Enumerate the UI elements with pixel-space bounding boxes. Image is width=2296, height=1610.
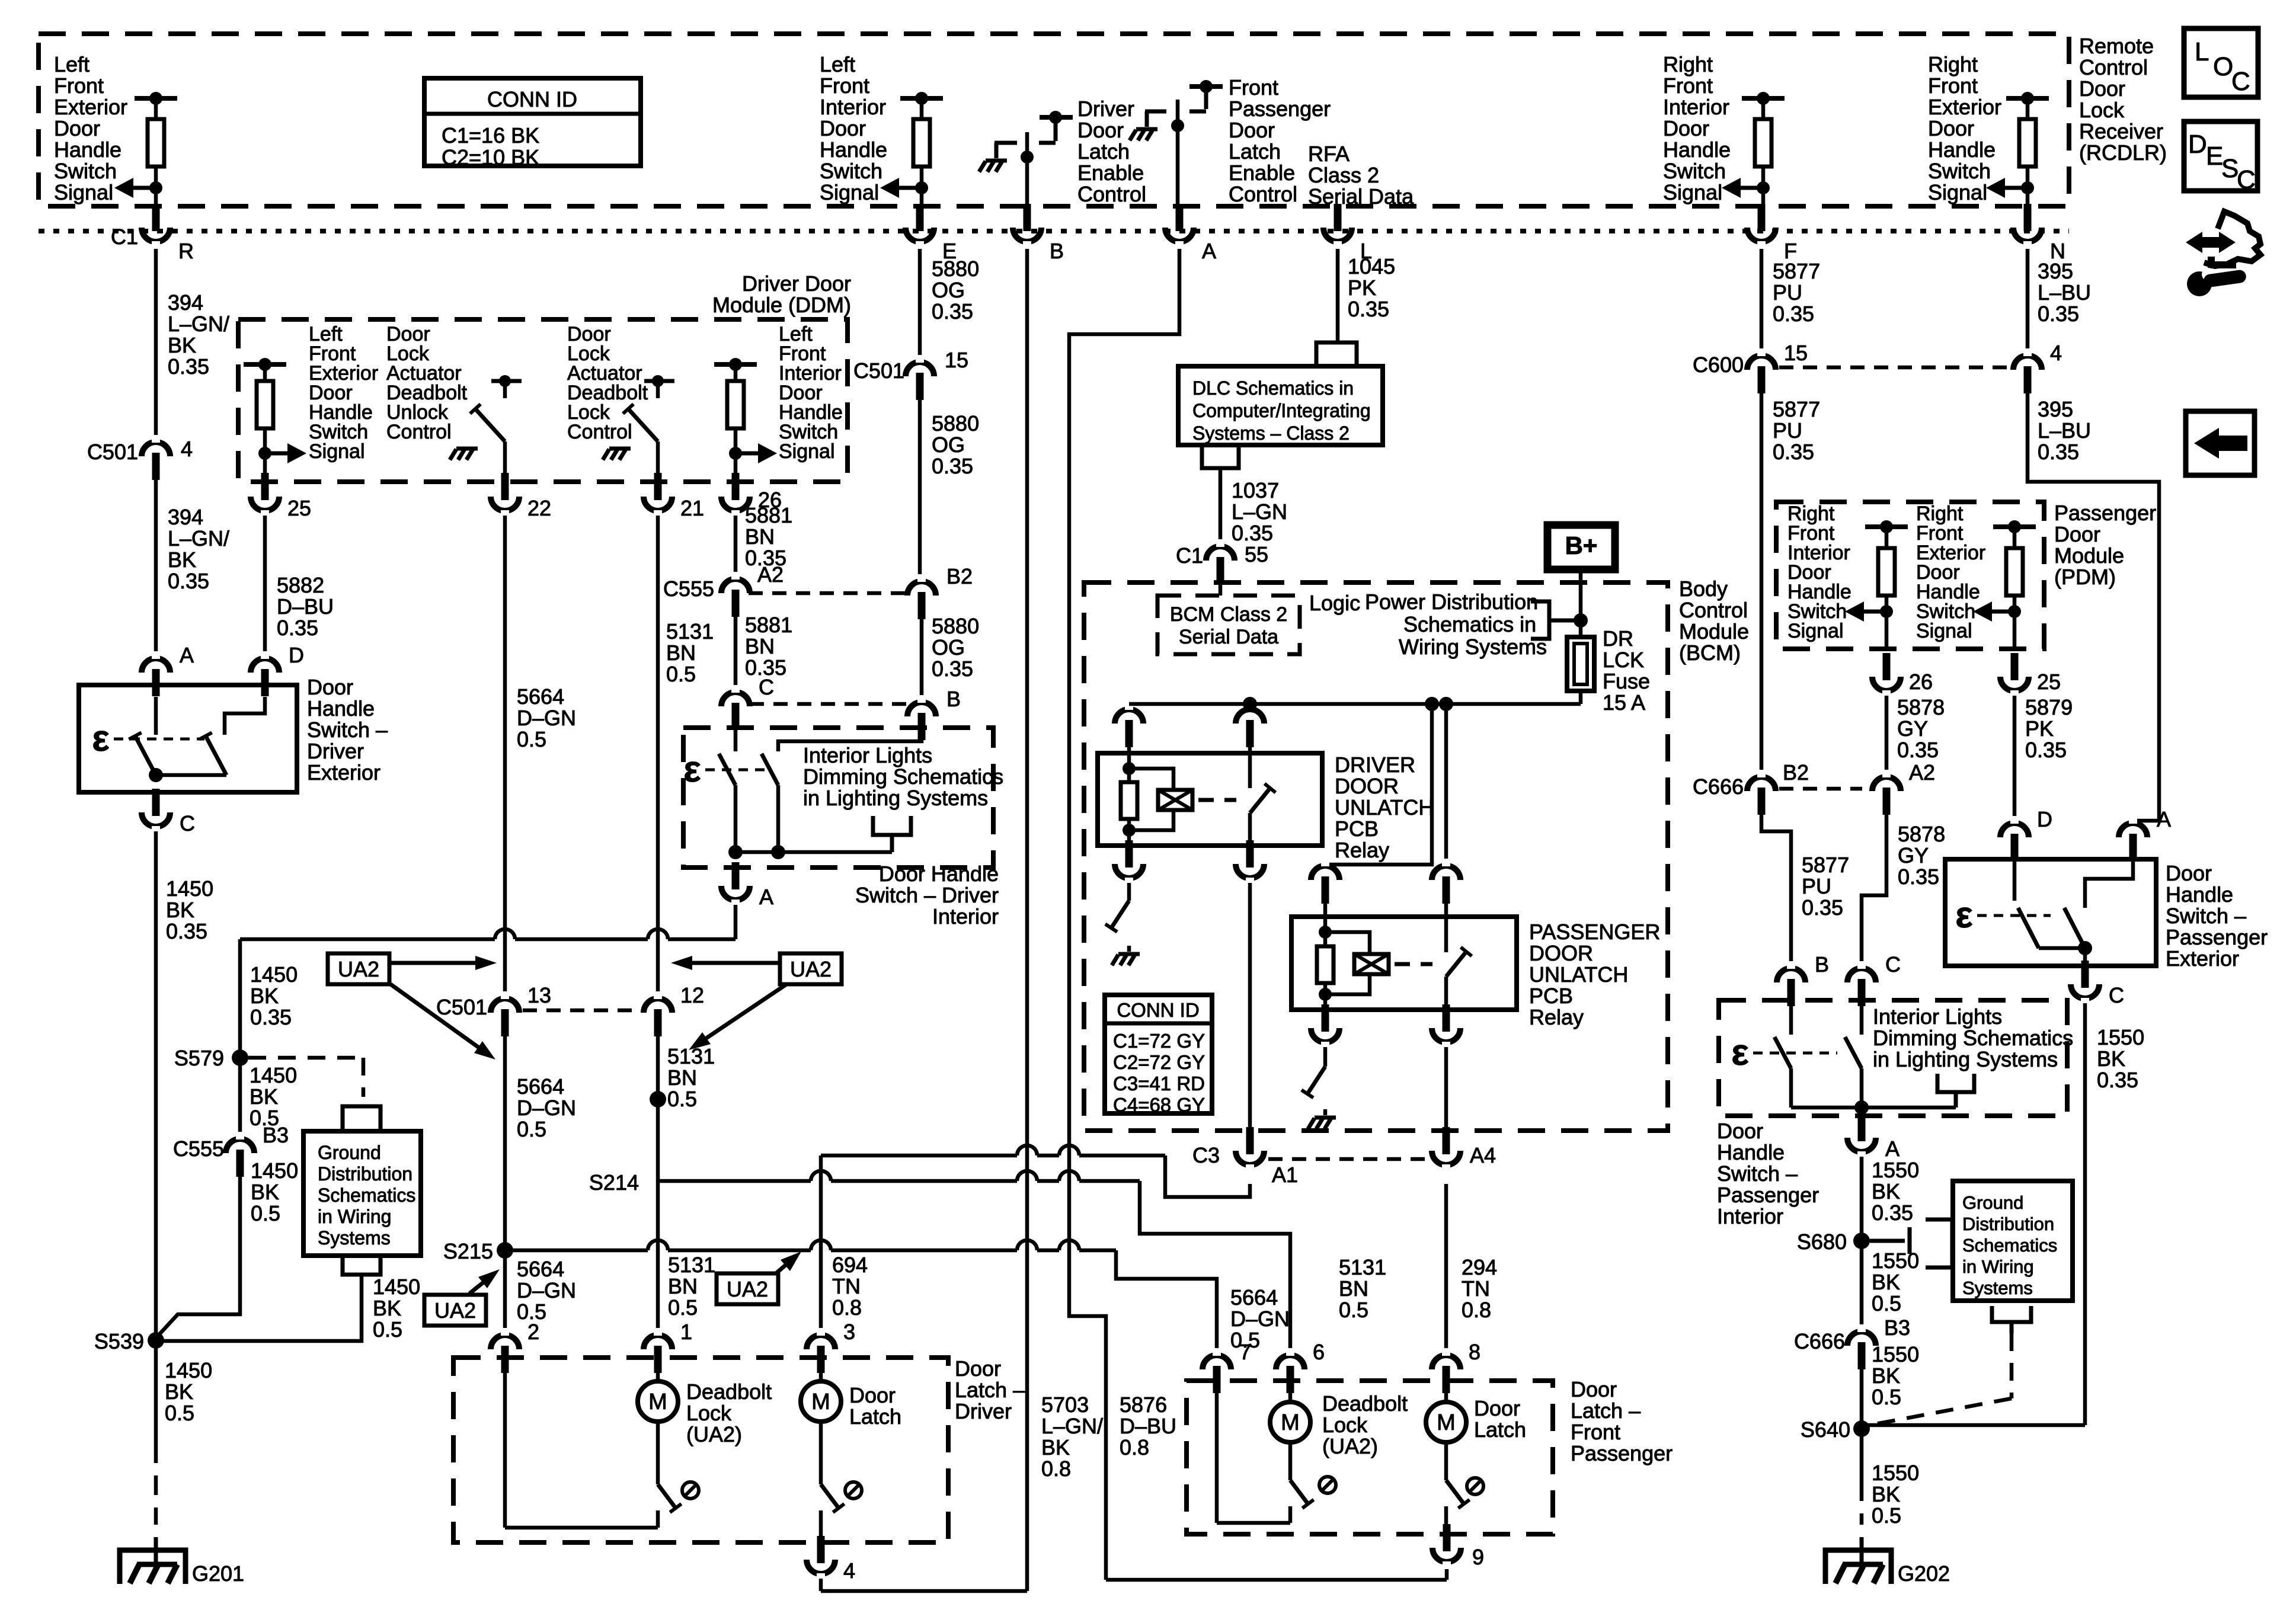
wire 5664 low — [503, 1250, 507, 1331]
DDM deadbolt-lock switch — [644, 379, 674, 383]
connector A (driver exterior switch) — [142, 658, 170, 673]
ground distribution box right — [1953, 1181, 2073, 1301]
svg-text:0.8: 0.8 — [1041, 1457, 1071, 1481]
svg-text:DRIVER: DRIVER — [1335, 753, 1415, 777]
lamp bracket (driver dimming) — [873, 816, 911, 835]
svg-text:Module: Module — [1679, 619, 1749, 644]
svg-text:Latch –: Latch – — [1571, 1398, 1641, 1423]
svg-text:Driver: Driver — [1077, 97, 1134, 121]
svg-text:D–BU: D–BU — [277, 594, 334, 619]
wire B3 to S539 — [156, 1177, 240, 1338]
svg-text:S640: S640 — [1801, 1417, 1850, 1442]
svg-text:26: 26 — [1909, 670, 1933, 694]
PDM resistor right-front-interior — [1865, 524, 1908, 529]
svg-text:L–BU: L–BU — [2038, 280, 2091, 305]
svg-text:Door: Door — [1571, 1377, 1617, 1401]
ground (relay2) — [1315, 1116, 1336, 1120]
svg-text:6: 6 — [1313, 1340, 1325, 1364]
svg-text:Door: Door — [1717, 1119, 1763, 1143]
svg-text:8: 8 — [1469, 1340, 1480, 1364]
svg-text:A: A — [1202, 239, 1216, 263]
wire S640 to passenger exterior — [1862, 1423, 2085, 1427]
svg-text:5882: 5882 — [277, 573, 324, 597]
svg-text:Door: Door — [54, 116, 100, 140]
svg-text:5876: 5876 — [1120, 1393, 1167, 1417]
connector B (passenger interior) — [1777, 968, 1805, 982]
wire 5877 low jog — [1761, 815, 1791, 965]
connector C555 pin B (interior lights) — [907, 702, 936, 716]
svg-text:1550: 1550 — [2097, 1025, 2144, 1049]
svg-text:M: M — [811, 1390, 830, 1414]
svg-text:9: 9 — [1472, 1545, 1484, 1569]
inline connector dashes C600 — [1779, 366, 2008, 370]
svg-text:0.35: 0.35 — [1348, 297, 1389, 321]
svg-text:A: A — [2157, 807, 2171, 831]
wire 5131 upper — [656, 516, 660, 995]
svg-text:RFA: RFA — [1308, 142, 1350, 166]
svg-text:0.8: 0.8 — [1462, 1298, 1491, 1322]
connector relay2 coil pin — [1311, 866, 1339, 880]
svg-text:0.35: 0.35 — [1773, 440, 1814, 464]
ground (DDM unlock switch) — [456, 447, 478, 451]
deadbolt switch driver — [656, 1422, 660, 1484]
connector A (passenger exterior switch) — [2119, 823, 2147, 837]
svg-text:D–GN: D–GN — [1230, 1307, 1290, 1331]
svg-text:A1: A1 — [1272, 1163, 1298, 1187]
RCDLR internal resistor (x=3421) — [2006, 96, 2049, 101]
svg-text:3: 3 — [843, 1320, 855, 1344]
svg-text:BK: BK — [373, 1296, 401, 1320]
svg-text:25: 25 — [287, 496, 311, 520]
svg-text:Front: Front — [1663, 73, 1713, 98]
svg-text:1550: 1550 — [1872, 1461, 1919, 1485]
svg-text:(PDM): (PDM) — [2054, 565, 2116, 589]
motor deadbolt lock driver — [656, 1373, 660, 1381]
svg-text:BK: BK — [1872, 1270, 1900, 1294]
driver door unlatch relay box — [1098, 753, 1322, 846]
connector PDM pin 25 — [2000, 677, 2029, 691]
svg-text:15 A: 15 A — [1603, 690, 1645, 715]
svg-text:D: D — [2188, 130, 2207, 159]
svg-text:C4=68 GY: C4=68 GY — [1113, 1094, 1205, 1116]
connector relay1 switch pin — [1236, 709, 1264, 724]
svg-text:Power Distribution: Power Distribution — [1365, 590, 1538, 614]
horizontal run to S579 wire — [240, 937, 495, 942]
svg-text:Schematics: Schematics — [318, 1185, 415, 1206]
wire 1550 upper — [1860, 1157, 1864, 1328]
relay1 coil circuit — [1127, 747, 1131, 782]
svg-text:in Wiring: in Wiring — [318, 1206, 391, 1227]
svg-text:1045: 1045 — [1348, 254, 1395, 279]
door latch switch driver — [819, 1422, 823, 1484]
wire 5880 mid — [918, 400, 922, 577]
svg-text:C666: C666 — [1794, 1329, 1845, 1353]
svg-text:OG: OG — [932, 433, 965, 457]
fuse DR LCK — [1567, 637, 1594, 691]
svg-text:BN: BN — [1339, 1276, 1368, 1301]
DLC schematics box — [1178, 366, 1383, 445]
wire to G202 dashed — [1860, 1481, 1864, 1525]
door latch switch passenger — [1444, 1442, 1448, 1480]
svg-text:A4: A4 — [1470, 1143, 1496, 1167]
wire 694 TN down — [819, 1156, 823, 1331]
svg-text:Handle: Handle — [1928, 137, 1996, 162]
svg-text:Front: Front — [1229, 75, 1278, 100]
connector C1 pin N — [2013, 228, 2042, 242]
svg-text:5877: 5877 — [1773, 259, 1820, 283]
svg-text:5877: 5877 — [1802, 853, 1849, 877]
interior lights dimming box passenger — [1719, 1000, 2067, 1116]
relay1 coil symbol — [1158, 790, 1192, 810]
svg-text:0.35: 0.35 — [932, 299, 973, 324]
inline connector dashes A2-B2 — [749, 591, 907, 596]
relay1 switch — [1248, 747, 1252, 788]
svg-text:1450: 1450 — [250, 962, 298, 987]
wire below dimming box — [734, 868, 738, 878]
passenger dimming internals — [1789, 1003, 1793, 1035]
svg-text:2: 2 — [527, 1320, 539, 1344]
svg-text:0.5: 0.5 — [666, 662, 696, 686]
DDM deadbolt-unlock switch — [491, 379, 522, 383]
svg-text:7: 7 — [1239, 1340, 1251, 1364]
svg-text:S: S — [2221, 154, 2239, 183]
svg-text:ε: ε — [1731, 1032, 1748, 1073]
UA2 tag 2 — [780, 953, 842, 984]
svg-text:Door: Door — [955, 1356, 1001, 1381]
svg-text:Serial Data: Serial Data — [1308, 184, 1414, 209]
connector relay2 switch out — [1432, 1028, 1460, 1042]
svg-text:PU: PU — [1773, 280, 1802, 305]
PDM resistor right-front-exterior — [1993, 524, 2036, 529]
wire 5131 mid — [656, 1036, 660, 1331]
svg-text:0.5: 0.5 — [517, 727, 546, 751]
wire relay1 out to C3 — [1248, 883, 1252, 1142]
connector D (driver exterior switch) — [251, 658, 279, 673]
wire 5881 upper — [734, 516, 738, 575]
svg-text:Dimming Schematics: Dimming Schematics — [1873, 1026, 2073, 1050]
wire 5879 — [2013, 696, 2017, 820]
connector relay1 coil out — [1115, 864, 1143, 878]
connector D (passenger exterior switch) — [2000, 823, 2029, 837]
svg-text:G201: G201 — [192, 1561, 244, 1586]
svg-text:(RCDLR): (RCDLR) — [2079, 140, 2167, 165]
svg-text:Handle: Handle — [1663, 137, 1731, 162]
wire conn4 to bottom — [819, 1579, 823, 1591]
connector door latch driver pin 3 — [807, 1335, 835, 1349]
svg-text:694: 694 — [832, 1253, 868, 1277]
svg-text:Passenger: Passenger — [2166, 925, 2268, 949]
svg-text:0.35: 0.35 — [1802, 895, 1843, 920]
svg-text:BK: BK — [1872, 1179, 1900, 1204]
svg-text:S579: S579 — [174, 1046, 224, 1070]
svg-text:ε: ε — [683, 749, 701, 790]
svg-text:Fuse: Fuse — [1603, 669, 1650, 693]
DESC icon box — [2184, 121, 2257, 191]
wire 5880 lower — [920, 619, 924, 697]
svg-text:Front: Front — [54, 73, 104, 98]
svg-text:Handle: Handle — [307, 696, 375, 721]
wire 5664 upper — [503, 516, 507, 995]
svg-text:Latch: Latch — [1077, 139, 1130, 164]
svg-text:D–GN: D–GN — [517, 1096, 576, 1120]
svg-text:C: C — [180, 811, 195, 836]
wire down to S579 — [238, 939, 242, 1058]
svg-text:0.35: 0.35 — [1872, 1201, 1913, 1225]
svg-text:Handle: Handle — [1717, 1140, 1785, 1164]
svg-text:C1=72 GY: C1=72 GY — [1113, 1030, 1205, 1052]
connector C555 pin C — [721, 692, 750, 706]
svg-text:R: R — [178, 239, 194, 263]
ground G202 — [1825, 1550, 1891, 1584]
motor door latch driver — [819, 1373, 823, 1381]
svg-text:Right: Right — [1663, 52, 1713, 76]
relay2 switch — [1444, 889, 1448, 952]
door latch front passenger dashed box — [1187, 1381, 1553, 1534]
svg-text:S539: S539 — [94, 1329, 144, 1353]
bracket above DLC box — [1316, 343, 1357, 366]
svg-text:Signal: Signal — [1928, 180, 1987, 204]
bracket below DLC box — [1202, 445, 1239, 468]
svg-text:D–BU: D–BU — [1120, 1414, 1176, 1438]
svg-text:G202: G202 — [1898, 1561, 1950, 1586]
svg-text:in Wiring: in Wiring — [1962, 1256, 2034, 1277]
wire relay2 feed right — [1444, 704, 1448, 865]
svg-text:Dimming Schematics: Dimming Schematics — [803, 764, 1003, 789]
svg-text:Control: Control — [1679, 598, 1748, 622]
svg-text:Switch –: Switch – — [307, 718, 388, 742]
svg-text:B: B — [1050, 239, 1064, 263]
wire 5703 vertical — [1025, 249, 1029, 1591]
svg-text:A: A — [180, 643, 194, 667]
svg-text:21: 21 — [680, 496, 704, 520]
svg-text:GY: GY — [1898, 843, 1929, 868]
svg-text:394: 394 — [168, 505, 203, 529]
connector door latch driver pin 4 — [807, 1560, 835, 1574]
UA2 tag 1 — [328, 953, 389, 984]
connector DDM pin 25 — [251, 497, 279, 511]
svg-text:Door: Door — [1474, 1396, 1520, 1420]
wire 395 upper — [2026, 249, 2030, 351]
wire conn2 into box — [503, 1373, 507, 1528]
connector DDM pin 21 — [644, 497, 672, 511]
svg-text:1550: 1550 — [1872, 1342, 1919, 1366]
svg-text:C2=72 GY: C2=72 GY — [1113, 1051, 1205, 1073]
wire 1550 from passenger exterior — [2083, 1003, 2087, 1425]
bracket above ground box (left) — [343, 1106, 380, 1131]
svg-text:Door: Door — [2079, 76, 2125, 101]
inline connector dashes C3-A4 — [1268, 1157, 1428, 1161]
wire B+ to fuse — [1579, 566, 1583, 637]
svg-text:5664: 5664 — [517, 1257, 564, 1281]
svg-text:Exterior: Exterior — [54, 95, 127, 119]
svg-text:Signal: Signal — [1916, 620, 1972, 642]
connector relay2 coil out — [1311, 1028, 1339, 1042]
svg-text:Signal: Signal — [1663, 180, 1722, 204]
svg-text:PCB: PCB — [1335, 817, 1379, 841]
svg-text:Door: Door — [1229, 118, 1275, 142]
svg-text:1450: 1450 — [373, 1275, 420, 1299]
svg-text:Interior: Interior — [820, 95, 886, 119]
svg-text:12: 12 — [680, 983, 704, 1007]
svg-text:Switch – Driver: Switch – Driver — [855, 883, 999, 907]
svg-text:DR: DR — [1603, 626, 1633, 651]
svg-text:Module: Module — [2054, 543, 2124, 568]
svg-text:1550: 1550 — [1872, 1158, 1919, 1182]
svg-text:Switch: Switch — [820, 159, 882, 183]
svg-text:Handle: Handle — [2166, 882, 2233, 907]
connector relay1 switch out — [1236, 864, 1264, 878]
connector A (passenger interior switch) — [1847, 1138, 1876, 1152]
double-arrow + animal head icon — [2186, 232, 2236, 253]
svg-text:A2: A2 — [1909, 760, 1935, 785]
svg-text:395: 395 — [2038, 397, 2073, 421]
svg-text:D–GN: D–GN — [517, 1278, 576, 1302]
svg-text:BK: BK — [250, 1084, 278, 1109]
svg-text:L–BU: L–BU — [2038, 418, 2091, 443]
wire 1037 — [1219, 468, 1223, 543]
svg-text:Relay: Relay — [1529, 1005, 1584, 1029]
connector C (passenger interior) — [1847, 968, 1876, 982]
svg-text:C501: C501 — [87, 440, 138, 464]
svg-text:55: 55 — [1245, 542, 1268, 566]
svg-text:0.35: 0.35 — [1898, 865, 1939, 889]
connector C (passenger exterior switch) — [2071, 984, 2099, 998]
svg-text:Switch –: Switch – — [2166, 904, 2246, 928]
svg-text:Enable: Enable — [1077, 161, 1144, 185]
motor deadbolt lock passenger — [1288, 1393, 1293, 1402]
svg-text:Door: Door — [2166, 861, 2212, 885]
svg-text:0.35: 0.35 — [168, 354, 209, 379]
svg-text:S680: S680 — [1797, 1230, 1847, 1254]
connector door latch pass pin 9 — [1432, 1548, 1461, 1562]
svg-text:C555: C555 — [173, 1137, 224, 1161]
ground (DDM lock switch) — [609, 447, 631, 451]
svg-text:BN: BN — [666, 641, 696, 665]
svg-text:L–GN/: L–GN/ — [168, 312, 229, 336]
svg-text:5131: 5131 — [1339, 1255, 1386, 1279]
wire 394 upper — [154, 249, 158, 437]
DDM resistor left-front-exterior — [244, 362, 286, 367]
svg-text:Driver Door: Driver Door — [742, 271, 851, 296]
Body Control Module dashed box — [1084, 582, 1668, 1131]
splice S579 — [232, 1049, 248, 1066]
svg-text:Module (DDM): Module (DDM) — [712, 293, 851, 317]
wire to G201 (dashed) — [154, 1443, 158, 1525]
connector C (driver exterior switch) — [142, 812, 170, 827]
svg-text:Control: Control — [567, 421, 632, 443]
svg-text:OG: OG — [932, 635, 965, 660]
svg-text:1450: 1450 — [166, 876, 213, 901]
connector door latch pass pin 8 — [1432, 1355, 1460, 1369]
svg-text:L–GN: L–GN — [1232, 500, 1287, 524]
svg-text:Serial Data: Serial Data — [1179, 626, 1278, 648]
motor door latch passenger — [1444, 1393, 1448, 1402]
connector relay1 coil pin — [1115, 709, 1143, 724]
wire 5664 mid — [503, 1036, 507, 1250]
harness dotted line (connector C1 row) — [39, 229, 2069, 233]
svg-text:ε: ε — [92, 718, 109, 759]
Driver Door Module dashed box — [238, 319, 848, 482]
svg-text:PU: PU — [1802, 874, 1831, 898]
svg-text:C501: C501 — [853, 359, 904, 383]
svg-text:C: C — [2237, 165, 2256, 194]
svg-text:1037: 1037 — [1232, 478, 1279, 502]
wire bus to relay1 pin1 — [1127, 704, 1131, 706]
svg-text:Signal: Signal — [820, 180, 879, 204]
svg-text:PCB: PCB — [1529, 984, 1573, 1008]
svg-text:D–GN: D–GN — [517, 706, 576, 730]
svg-text:B+: B+ — [1565, 532, 1598, 559]
svg-text:C1=16 BK: C1=16 BK — [442, 123, 539, 148]
lamp bracket (passenger dimming) — [1937, 1074, 1974, 1092]
svg-text:BN: BN — [667, 1065, 697, 1090]
B+ box — [1547, 525, 1615, 569]
svg-text:4: 4 — [2050, 341, 2062, 365]
inline connector dashes 13-12 — [523, 1009, 641, 1013]
svg-text:Exterior: Exterior — [307, 760, 380, 785]
svg-text:M: M — [1437, 1410, 1456, 1435]
inline connector dashes C666 — [1779, 787, 1862, 791]
interior lights dimming box driver — [683, 728, 993, 868]
svg-text:Front: Front — [1571, 1420, 1620, 1444]
svg-text:0.35: 0.35 — [168, 569, 209, 593]
svg-text:0.5: 0.5 — [517, 1117, 546, 1141]
svg-text:0.5: 0.5 — [165, 1401, 194, 1425]
svg-text:Computer/Integrating: Computer/Integrating — [1192, 400, 1371, 421]
svg-text:Enable: Enable — [1229, 161, 1295, 185]
wire 5876 from connector A — [1069, 249, 1179, 1580]
svg-text:0.35: 0.35 — [166, 919, 207, 943]
wire from interior switch A — [734, 905, 738, 939]
svg-text:395: 395 — [2038, 259, 2073, 283]
svg-text:Left: Left — [820, 52, 855, 76]
svg-text:BK: BK — [2097, 1046, 2125, 1071]
ground G201 — [120, 1550, 186, 1584]
svg-text:Signal: Signal — [54, 180, 113, 204]
svg-text:13: 13 — [527, 983, 551, 1007]
svg-text:(UA2): (UA2) — [686, 1422, 742, 1446]
wire fuse to bus — [1579, 691, 1583, 704]
S214 branch line — [658, 1179, 811, 1183]
wire 1045 PK — [1336, 249, 1340, 343]
svg-text:Logic: Logic — [1309, 591, 1360, 615]
svg-text:0.35: 0.35 — [1773, 302, 1814, 326]
svg-text:5881: 5881 — [745, 503, 792, 527]
deadbolt switch passenger — [1288, 1442, 1293, 1480]
connector C1 pin A — [1165, 228, 1194, 242]
wire into BCM class2 box — [1219, 584, 1223, 596]
wire ground box to S539 — [156, 1275, 362, 1341]
wire 1450 BK — [154, 831, 158, 1443]
svg-text:UA2: UA2 — [434, 1298, 476, 1323]
RCDLR module dashed box — [39, 34, 2069, 206]
svg-text:0.5: 0.5 — [373, 1317, 402, 1342]
svg-text:0.35: 0.35 — [932, 657, 973, 681]
svg-text:5879: 5879 — [2025, 695, 2073, 719]
connector door latch pass pin 6 — [1276, 1355, 1304, 1369]
svg-text:Right: Right — [1928, 52, 1978, 76]
svg-text:Lock: Lock — [1322, 1413, 1368, 1437]
svg-text:5131: 5131 — [666, 619, 714, 644]
door handle switch passenger exterior box — [1945, 859, 2156, 966]
svg-text:15: 15 — [1784, 341, 1808, 365]
svg-text:DLC Schematics in: DLC Schematics in — [1192, 377, 1354, 399]
svg-text:D: D — [2037, 807, 2052, 831]
svg-text:0.35: 0.35 — [1232, 521, 1273, 545]
svg-text:TN: TN — [1462, 1276, 1490, 1301]
svg-text:B: B — [946, 687, 961, 711]
svg-text:L–GN/: L–GN/ — [1041, 1414, 1103, 1438]
